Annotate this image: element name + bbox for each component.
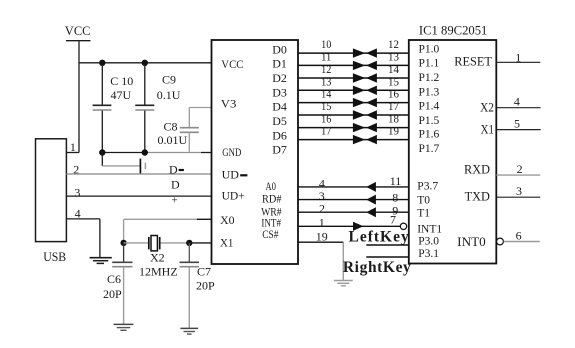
IC U1 USB interface chip body bbox=[212, 40, 299, 264]
wire TXD pin 3 bbox=[496, 196, 540, 198]
svg-text:20P: 20P bbox=[196, 278, 215, 292]
diode pair row D2 bbox=[353, 73, 377, 82]
svg-text:0.1U: 0.1U bbox=[157, 88, 181, 102]
node junction GND/C10 bbox=[99, 149, 105, 155]
crystal X2 bbox=[124, 236, 190, 279]
diode pair row D6 bbox=[353, 123, 377, 132]
svg-text:RightKey: RightKey bbox=[343, 259, 412, 276]
svg-text:C6: C6 bbox=[107, 272, 121, 286]
svg-text:D4: D4 bbox=[272, 100, 287, 114]
svg-text:X2: X2 bbox=[480, 100, 494, 114]
svg-text:D5: D5 bbox=[272, 114, 287, 128]
svg-text:P1.3: P1.3 bbox=[419, 86, 440, 98]
svg-text:20P: 20P bbox=[103, 287, 122, 301]
node junction X1/C7/crystal bbox=[186, 240, 192, 246]
svg-text:USB: USB bbox=[43, 249, 66, 264]
svg-text:11: 11 bbox=[390, 174, 402, 188]
svg-text:1: 1 bbox=[319, 216, 325, 230]
svg-text:6: 6 bbox=[516, 229, 522, 243]
svg-text:D2: D2 bbox=[272, 71, 287, 85]
svg-text:P1.5: P1.5 bbox=[419, 115, 440, 127]
pin label UD- bbox=[222, 169, 248, 181]
wire CS# to ground bbox=[298, 242, 343, 280]
svg-text:LeftKey: LeftKey bbox=[349, 229, 410, 246]
svg-text:1: 1 bbox=[515, 50, 521, 64]
svg-text:X1: X1 bbox=[220, 238, 234, 250]
svg-text:3: 3 bbox=[516, 184, 522, 198]
svg-text:A0: A0 bbox=[265, 181, 276, 193]
svg-text:P3.1: P3.1 bbox=[418, 248, 439, 260]
wire INT# to INT1 bbox=[298, 222, 400, 231]
ground C7 bbox=[180, 328, 198, 334]
svg-text:IC1 89C2051: IC1 89C2051 bbox=[419, 23, 488, 37]
svg-text:D7: D7 bbox=[272, 143, 287, 157]
svg-text:2: 2 bbox=[319, 202, 325, 216]
svg-text:0.01U: 0.01U bbox=[158, 133, 188, 147]
net label D- bbox=[169, 163, 184, 177]
wire D5 bus bbox=[298, 114, 409, 116]
svg-text:C7: C7 bbox=[197, 264, 211, 278]
wire D3 bus bbox=[298, 89, 409, 91]
capacitor C9 bbox=[135, 63, 181, 153]
svg-text:P3.7: P3.7 bbox=[417, 181, 438, 193]
pin circle INT0 bbox=[497, 238, 504, 245]
svg-text:P1.7: P1.7 bbox=[419, 143, 440, 155]
wire INT0 pin 6 bbox=[504, 241, 540, 243]
svg-text:INT1: INT1 bbox=[417, 224, 442, 236]
wire RESET pin 1 bbox=[496, 61, 540, 63]
wire D4 bus bbox=[298, 102, 409, 104]
svg-text:P1.6: P1.6 bbox=[419, 129, 440, 141]
diode pair row D1 bbox=[353, 61, 377, 70]
svg-text:UD: UD bbox=[222, 169, 239, 181]
svg-text:2: 2 bbox=[517, 162, 523, 176]
svg-text:T1: T1 bbox=[417, 208, 430, 220]
svg-text:D: D bbox=[169, 163, 178, 177]
capacitor on D- line bbox=[102, 153, 145, 174]
svg-text:D0: D0 bbox=[272, 42, 287, 56]
IC IC1 89C2051 body bbox=[409, 40, 497, 264]
svg-text:CS#: CS# bbox=[262, 229, 278, 241]
svg-text:RXD: RXD bbox=[464, 163, 490, 177]
wire V3 pin bbox=[189, 107, 212, 109]
svg-text:VCC: VCC bbox=[221, 59, 243, 71]
node junction VCC/C9 bbox=[142, 60, 148, 66]
svg-text:3: 3 bbox=[74, 185, 80, 199]
svg-text:19: 19 bbox=[388, 124, 399, 138]
svg-text:VCC: VCC bbox=[65, 24, 91, 38]
wire RD# to T0 bbox=[298, 195, 409, 205]
svg-text:RD#: RD# bbox=[262, 193, 282, 205]
svg-text:X2: X2 bbox=[150, 251, 165, 265]
wire USB pin2 D- to UD- bbox=[66, 173, 212, 175]
wire X1 pin bbox=[189, 242, 212, 244]
svg-text:X0: X0 bbox=[220, 215, 235, 227]
wire D6 bus bbox=[298, 127, 409, 129]
diode pair row D3 bbox=[353, 86, 377, 95]
svg-text:T0: T0 bbox=[417, 194, 430, 206]
wire VCC vertical to USB pin1 bbox=[78, 41, 80, 152]
svg-text:D: D bbox=[171, 177, 180, 191]
svg-text:P1.2: P1.2 bbox=[419, 72, 440, 84]
wire WR# to T1 bbox=[298, 207, 409, 217]
svg-text:12MHZ: 12MHZ bbox=[139, 265, 178, 279]
svg-text:C 10: C 10 bbox=[110, 74, 133, 88]
svg-text:UD+: UD+ bbox=[222, 190, 245, 202]
svg-text:47U: 47U bbox=[111, 88, 132, 102]
node junction GND/C9 bbox=[142, 149, 148, 155]
wire D0 bus bbox=[298, 52, 409, 54]
svg-text:+: + bbox=[172, 194, 178, 206]
svg-text:D1: D1 bbox=[272, 57, 287, 71]
diode pair row D7 bbox=[353, 135, 377, 144]
wire VCC rail bbox=[79, 62, 212, 64]
capacitor C10 bbox=[93, 63, 134, 153]
node junction VCC/C10 bbox=[99, 60, 105, 66]
svg-text:P1.0: P1.0 bbox=[419, 43, 440, 55]
svg-text:P1.4: P1.4 bbox=[419, 101, 440, 113]
wire X1 pin 5 bbox=[496, 129, 540, 131]
wire X0 net bbox=[124, 219, 212, 243]
svg-text:TXD: TXD bbox=[465, 189, 490, 203]
diode pair row D0 bbox=[353, 48, 377, 57]
wire D7 bus bbox=[298, 139, 409, 141]
svg-text:P1.1: P1.1 bbox=[419, 58, 440, 70]
ground CS# bbox=[334, 281, 353, 286]
capacitor C7 bbox=[180, 243, 216, 329]
svg-text:D6: D6 bbox=[272, 128, 287, 142]
svg-text:P3.0: P3.0 bbox=[418, 236, 439, 248]
wire P3.0 LeftKey bbox=[366, 244, 409, 246]
wire D1 bus bbox=[298, 64, 409, 66]
power symbol VCC bbox=[65, 24, 91, 41]
svg-text:D3: D3 bbox=[272, 85, 287, 99]
svg-text:INT0: INT0 bbox=[457, 235, 486, 249]
wire USB pin1 to VCC line bbox=[66, 152, 79, 154]
wire USB pin4 to ground bbox=[66, 219, 100, 258]
svg-text:5: 5 bbox=[514, 117, 520, 131]
diode pair row D5 bbox=[353, 110, 377, 119]
svg-text:INT#: INT# bbox=[261, 217, 281, 229]
wire P3.1 RightKey bbox=[366, 256, 409, 258]
wire RXD pin 2 bbox=[496, 174, 540, 176]
node junction X0/C6/crystal bbox=[120, 240, 126, 246]
diode pair row D4 bbox=[353, 98, 377, 107]
capacitor C6 bbox=[103, 243, 133, 325]
pin circle INT1 bbox=[400, 223, 406, 229]
wire GND rail bbox=[102, 152, 212, 154]
wire A0 to P3.7 bbox=[298, 182, 409, 192]
ground C6 bbox=[114, 324, 134, 330]
svg-text:C8: C8 bbox=[164, 120, 178, 134]
svg-text:4: 4 bbox=[514, 95, 520, 109]
svg-text:C9: C9 bbox=[162, 72, 176, 86]
svg-text:17: 17 bbox=[321, 124, 331, 138]
wire X2 pin 4 bbox=[496, 107, 540, 109]
ground USB shield bbox=[90, 258, 112, 264]
svg-text:X1: X1 bbox=[481, 123, 494, 137]
svg-text:RESET: RESET bbox=[454, 55, 492, 69]
wire USB pin3 D+ to UD+ bbox=[66, 195, 212, 197]
svg-text:19: 19 bbox=[316, 230, 328, 244]
connector USB bbox=[36, 139, 67, 264]
capacitor C8 bbox=[158, 108, 199, 153]
svg-text:V3: V3 bbox=[221, 98, 237, 110]
svg-text:7: 7 bbox=[390, 212, 396, 226]
wire D2 bus bbox=[298, 77, 409, 79]
svg-text:GND: GND bbox=[222, 147, 241, 159]
svg-text:8: 8 bbox=[392, 190, 398, 204]
